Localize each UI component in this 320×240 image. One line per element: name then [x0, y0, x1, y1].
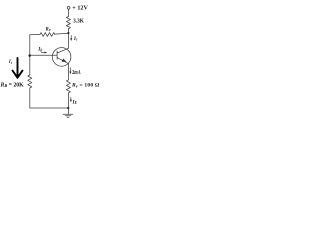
svg-text:I1: I1 — [8, 60, 13, 65]
svg-text:IE: IE — [72, 99, 78, 105]
svg-text:RF: RF — [46, 27, 52, 32]
svg-text:Ic: Ic — [73, 36, 78, 42]
svg-text:+ 12V: + 12V — [72, 5, 88, 12]
svg-text:Re = 100 Ω: Re = 100 Ω — [71, 83, 100, 89]
svg-text:Ib: Ib — [37, 47, 42, 53]
svg-text:2mA: 2mA — [72, 70, 81, 76]
svg-text:RB = 20K: RB = 20K — [0, 82, 24, 88]
svg-text:3.3K: 3.3K — [73, 18, 84, 25]
